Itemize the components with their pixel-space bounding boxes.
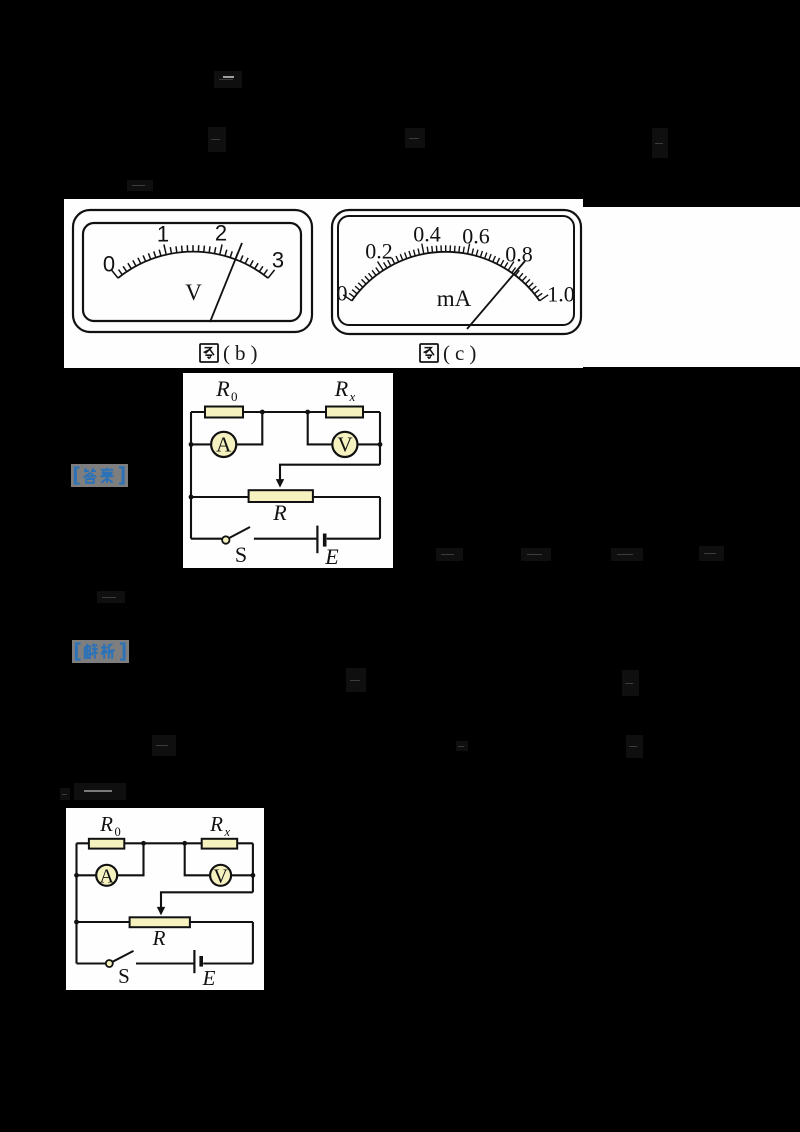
wire: top rail (77, 842, 253, 844)
milliammeter panel 图(c) outer frame (332, 210, 581, 334)
faint formula remnant 6 (436, 548, 463, 561)
wire: right rail upper segment (379, 412, 381, 465)
svg-text:V: V (185, 280, 202, 305)
faint formula remnant 12 (622, 670, 639, 696)
faint formula remnant 8 (611, 548, 643, 561)
blue left bracket 【 (76, 644, 81, 660)
milliammeter needle (467, 261, 525, 329)
svg-text:E: E (324, 544, 339, 568)
faint formula remnant 14 (456, 741, 468, 751)
caption 图(b) (200, 344, 218, 362)
switch S lever (229, 527, 250, 538)
svg-text:R: R (209, 812, 223, 836)
svg-text:(c): (c) (443, 341, 481, 365)
circuit white background (66, 808, 264, 990)
wire: right rail lower segment (379, 497, 381, 539)
analysis tag 【解析】 (72, 640, 129, 663)
milliammeter panel 图(c) inner frame (338, 216, 574, 325)
wire: bottom rail left of switch (191, 538, 222, 540)
svg-text:R: R (334, 376, 349, 401)
circuit diagram 1 (183, 373, 393, 568)
faint formula remnant 11 (346, 668, 366, 692)
figure band: meter faces 图(b) and 图(c) (64, 199, 800, 368)
node junction dot left row3 (74, 920, 79, 925)
wire: rheostat rail (77, 921, 253, 923)
node junction dot top-right (305, 410, 310, 415)
svg-text:0.4: 0.4 (413, 222, 441, 247)
faint formula remnant 16 (74, 783, 126, 800)
voltmeter panel 图(b) inner frame (83, 223, 301, 321)
switch S pivot (106, 960, 113, 967)
battery E short plate (323, 534, 327, 547)
battery E long plate (193, 950, 195, 973)
voltmeter scale numbers 0 1 2 3 (103, 221, 284, 277)
svg-text:mA: mA (437, 286, 472, 311)
svg-text:S: S (118, 964, 130, 988)
blue hanzi 1 (84, 468, 97, 483)
circuit white background (183, 373, 393, 568)
svg-text:R: R (272, 500, 287, 525)
rheostat slider arrowhead (157, 907, 165, 916)
milliammeter scale arc (352, 252, 540, 301)
resistor R0 (205, 407, 243, 418)
voltmeter scale arc (118, 252, 268, 278)
svg-text:V: V (213, 865, 228, 887)
white figure band background (64, 199, 583, 368)
svg-text:2: 2 (215, 221, 227, 246)
svg-text:0: 0 (103, 252, 115, 277)
faint formula remnant 1 (214, 71, 242, 88)
wire: voltmeter branch (308, 412, 380, 444)
faint formula remnant 15 (626, 735, 643, 758)
rheostat R (130, 917, 190, 927)
svg-text:1: 1 (157, 222, 169, 247)
wire: voltmeter branch (185, 843, 253, 875)
svg-text:3: 3 (272, 248, 284, 273)
svg-text:0: 0 (337, 281, 348, 306)
ammeter A (211, 432, 236, 457)
svg-text:R: R (215, 376, 230, 401)
wire: bottom rail battery to right (327, 538, 380, 540)
svg-text:S: S (235, 542, 247, 567)
wire: left rail (190, 412, 192, 539)
wire: bottom rail switch to battery (254, 538, 318, 540)
faint formula remnant 4 (652, 128, 668, 158)
battery E short plate (199, 956, 203, 967)
blue right bracket 】 (119, 468, 124, 484)
svg-text:0.2: 0.2 (365, 239, 393, 264)
wire: ammeter branch (191, 412, 262, 444)
svg-text:V: V (337, 432, 352, 456)
svg-text:R: R (99, 812, 113, 836)
resistor Rx (326, 407, 363, 418)
svg-text:0: 0 (115, 825, 121, 839)
wire: slider feed with arrow (280, 465, 380, 481)
ammeter A (96, 865, 117, 886)
blue hanzi 2 (101, 644, 115, 659)
svg-text:0: 0 (231, 389, 238, 404)
rheostat slider arrowhead (276, 479, 284, 488)
wire: ammeter branch (77, 843, 144, 875)
answer tag 【答案】 (71, 464, 128, 487)
wire: slider feed with arrow (161, 892, 253, 908)
node junction dot right row2 (378, 442, 383, 447)
faint formula remnant 3 (405, 128, 425, 148)
gray highlight box (72, 640, 129, 663)
svg-text:A: A (216, 432, 232, 456)
node junction dot top-left (260, 410, 265, 415)
wire: bottom rail battery to right (203, 962, 253, 964)
blue right bracket 】 (120, 644, 125, 660)
node junction dot left row2 (74, 873, 79, 878)
faint formula remnant 13 (152, 735, 176, 756)
node junction dot right row2 (251, 873, 256, 878)
faint formula remnant 5 (127, 180, 153, 191)
svg-text:A: A (99, 865, 114, 887)
wire: bottom rail switch to battery (136, 962, 194, 964)
svg-text:(b): (b) (223, 341, 263, 365)
voltmeter panel 图(b) outer frame (73, 210, 312, 332)
voltmeter scale ticks (111, 244, 274, 278)
node junction dot left row2 (189, 442, 194, 447)
voltmeter needle (210, 243, 242, 322)
wire: left rail (75, 843, 77, 963)
gray highlight box (71, 464, 128, 487)
wire: bottom rail left of switch (77, 962, 106, 964)
blue hanzi 2 (100, 468, 113, 483)
wire: top rail (191, 411, 380, 413)
wire: right rail lower segment (252, 922, 254, 964)
svg-text:E: E (202, 966, 216, 990)
rheostat R (249, 490, 313, 502)
node junction dot top-right (182, 841, 187, 846)
svg-text:0.8: 0.8 (505, 242, 533, 267)
blue hanzi 1 (85, 644, 98, 659)
faint formula remnant 9 (699, 546, 724, 561)
switch S lever (113, 951, 134, 962)
svg-text:0.6: 0.6 (462, 224, 490, 249)
faint formula remnant 7 (521, 548, 551, 561)
svg-text:x: x (349, 389, 356, 404)
switch S pivot (222, 536, 229, 543)
svg-text:1.0: 1.0 (547, 282, 575, 307)
wire: right rail upper segment (252, 843, 254, 892)
milliammeter scale numbers (337, 222, 575, 307)
svg-text:R: R (152, 926, 166, 950)
faint formula remnant 17 (60, 788, 70, 800)
voltmeter V (332, 432, 357, 457)
white paragraph area right of figure (583, 207, 800, 367)
voltmeter V (210, 865, 231, 886)
faint formula remnant 2 (208, 127, 226, 152)
circuit diagram 2 (66, 808, 264, 990)
resistor R0 (89, 839, 124, 849)
node junction dot left row3 (189, 495, 194, 500)
resistor Rx (202, 839, 238, 849)
wire: rheostat rail (191, 496, 380, 498)
svg-text:x: x (224, 825, 231, 839)
caption 图(c) (420, 344, 438, 362)
blue left bracket 【 (75, 468, 80, 484)
faint formula remnant 10 (97, 591, 125, 603)
battery E long plate (316, 526, 318, 554)
node junction dot top-left (141, 841, 146, 846)
milliammeter scale ticks (343, 244, 548, 301)
